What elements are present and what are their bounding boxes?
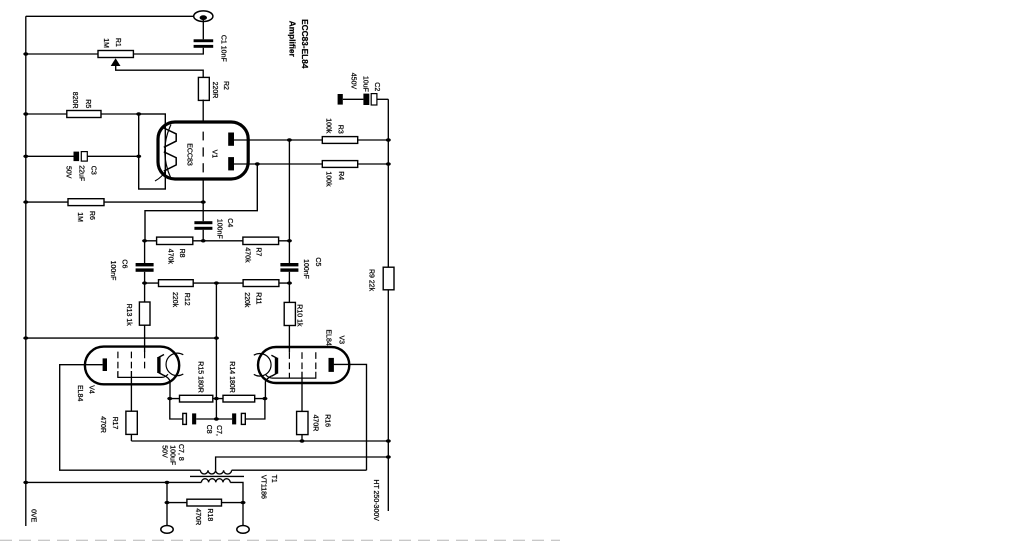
svg-text:100nF: 100nF (109, 261, 116, 281)
V1 anode plate b (228, 157, 234, 170)
V4 g3 to cathode link (118, 371, 168, 377)
V4 grid g2 dashes (130, 352, 132, 371)
wire cathode network row (170, 398, 265, 400)
svg-text:100uF: 100uF (168, 445, 175, 465)
node C4 R7 R8 (201, 239, 206, 242)
svg-text:R3: R3 (337, 125, 344, 134)
svg-text:R14 180R: R14 180R (228, 361, 235, 393)
wire R16 to screens line (301, 435, 303, 441)
svg-text:10uF: 10uF (361, 76, 368, 92)
node R3 branch (287, 138, 292, 141)
V1 divider dash 3 (202, 163, 204, 172)
svg-text:C6: C6 (121, 259, 128, 268)
wire anode b feedback path (145, 164, 257, 241)
wire V4 anode out (60, 365, 201, 471)
svg-text:100nF: 100nF (302, 259, 309, 279)
wire ground to C2 (343, 98, 364, 100)
wire screens line (131, 440, 388, 442)
node cathode R6 (201, 200, 206, 203)
wire V3 anode out (334, 364, 367, 470)
svg-text:450V: 450V (349, 73, 356, 90)
node box top (136, 112, 141, 115)
svg-text:VT1186: VT1186 (259, 475, 266, 499)
svg-text:1M: 1M (76, 212, 83, 222)
capacitor C8 plate minus (241, 413, 245, 424)
wire jack to C1 (202, 20, 204, 40)
capacitor C2 plate minus (371, 94, 377, 105)
wire R6 rail to body (26, 201, 68, 203)
V3 cathode bar (271, 355, 276, 376)
wire secondary left 0V (26, 481, 202, 483)
V4 grid g1 dashes (117, 352, 119, 378)
capacitor C1 plate 2 (194, 45, 214, 48)
svg-text:ECC83-EL84: ECC83-EL84 (300, 19, 310, 69)
node rail R5 (23, 112, 28, 115)
resistor R16 body (297, 411, 308, 434)
wire V1 anode a to R3 (234, 139, 322, 141)
node R18 left (165, 501, 170, 504)
wire C1 to R1 (133, 48, 203, 54)
wire C3 to rail (26, 155, 74, 157)
resistor R6 body (68, 199, 104, 206)
capacitor C3 plate minus (81, 152, 87, 162)
wire V1 anode b to R4 (234, 163, 322, 165)
svg-text:C1 10nF: C1 10nF (220, 35, 227, 62)
wire R4 to HT rail (358, 163, 389, 165)
node rail R1 (23, 52, 28, 55)
svg-text:22uF: 22uF (77, 165, 84, 181)
wire R12 row (145, 282, 217, 284)
node anode b branch (255, 162, 260, 165)
V1 divider dash 1 (202, 132, 204, 141)
svg-text:C7,: C7, (215, 425, 222, 436)
svg-text:C2: C2 (373, 82, 380, 91)
capacitor C7 plate minus (183, 413, 187, 424)
resistor R12 body (159, 280, 194, 287)
output terminal right (237, 526, 249, 534)
tube V3 envelope EL84 (258, 347, 349, 383)
V4 anode plate (103, 358, 107, 371)
node C7 C8 (214, 417, 219, 420)
svg-text:470k: 470k (244, 247, 251, 263)
tube V4 envelope EL84 (85, 347, 179, 385)
wire C6 branch upper (144, 241, 146, 263)
svg-text:R17: R17 (111, 417, 118, 430)
wire HT rail lower (387, 290, 389, 511)
capacitor C5 plate 2 (280, 268, 298, 271)
svg-text:V1: V1 (210, 150, 217, 159)
resistor R15 body (180, 395, 213, 402)
capacitor C2 plate plus (363, 94, 369, 105)
svg-text:R10 1k: R10 1k (296, 304, 303, 327)
wire V3 screen to R16 (301, 372, 303, 411)
node R8 C6 (142, 239, 147, 242)
wire 0V return line (26, 337, 217, 339)
wire C6 branch lower (144, 272, 146, 283)
node HT center tap (386, 455, 391, 458)
svg-text:R5: R5 (84, 99, 91, 108)
node rail C3 (23, 155, 28, 158)
wire to terminal left (166, 503, 168, 526)
svg-text:R2: R2 (222, 81, 229, 90)
capacitor C4 plate 2 (194, 227, 212, 230)
wire R1 to left rail (26, 53, 98, 55)
svg-text:100k: 100k (324, 118, 331, 134)
wire R13 to V4 grid (144, 325, 146, 352)
V3 heater circle (254, 354, 271, 377)
V1 divider dash 2 (202, 147, 204, 156)
wire R6 to V1 cathode line (104, 201, 203, 203)
svg-text:R15 180R: R15 180R (196, 361, 203, 393)
wire V3 cathode down (265, 376, 271, 399)
V4 grid g3 dashes (144, 352, 146, 371)
transformer T1 secondary winding (201, 479, 230, 483)
resistor R17 body (126, 411, 137, 434)
wire C4 to node (202, 230, 204, 241)
capacitor C3 plate plus (74, 152, 80, 162)
wire secondary right (230, 482, 243, 502)
svg-text:C8: C8 (205, 425, 212, 434)
resistor R11 body (243, 280, 279, 287)
resistor R13 body (139, 302, 150, 325)
svg-text:C3: C3 (89, 166, 96, 175)
svg-text:R9 22k: R9 22k (367, 269, 374, 292)
svg-text:100nF: 100nF (216, 219, 223, 239)
svg-text:0VE: 0VE (30, 509, 37, 523)
node V4 cathode R15 (167, 397, 172, 400)
svg-text:C4: C4 (226, 218, 233, 227)
LABELS-SECTION (30, 19, 380, 525)
resistor R8 body (157, 237, 193, 244)
svg-text:220R: 220R (211, 82, 218, 99)
V4 cathode bar (159, 355, 164, 376)
wire R5 to cathode box (101, 113, 139, 115)
wire R2 to V1 grid (202, 100, 204, 123)
svg-text:EL84: EL84 (324, 329, 331, 345)
node R11 C5 (287, 281, 292, 284)
svg-text:R4: R4 (337, 171, 344, 180)
node C6 R12 R13 (142, 281, 147, 284)
DOTS-SECTION (23, 52, 391, 504)
wire R8 row (145, 240, 204, 242)
svg-text:220k: 220k (243, 292, 250, 308)
resistor R4 body (322, 161, 357, 168)
svg-text:C5: C5 (314, 257, 321, 266)
wire HT rail upper (387, 99, 389, 267)
svg-text:Amplifier: Amplifier (288, 21, 298, 58)
svg-text:100k: 100k (325, 171, 332, 187)
capacitor C1 plate 1 (194, 39, 214, 42)
svg-text:820R: 820R (71, 92, 78, 109)
V1 heater arc (165, 125, 171, 179)
svg-text:ECC83: ECC83 (185, 143, 192, 166)
wire R17 to screens line (130, 435, 132, 441)
svg-text:R1: R1 (114, 38, 121, 47)
capacitor C8 plate plus (232, 413, 236, 424)
wire wiper to R2 (116, 65, 204, 78)
svg-text:470R: 470R (194, 508, 201, 525)
wire C3 to cathode box (87, 155, 138, 157)
wire V4 cathode down (164, 375, 170, 398)
node rail 0V return (23, 336, 28, 339)
resistor R10 body (284, 302, 295, 325)
node R12 R11 (214, 281, 219, 284)
node R16 screens (300, 439, 305, 442)
resistor R3 body (322, 137, 357, 144)
wire R7 row (203, 240, 289, 242)
svg-text:R18: R18 (206, 508, 213, 521)
transformer T1 primary winding (200, 470, 231, 474)
svg-text:C7, 8: C7, 8 (177, 444, 184, 461)
V1 anode plate a (228, 133, 234, 146)
tube V1 envelope ECC83 (158, 122, 248, 179)
node HT screens (386, 439, 391, 442)
cathode box V1 (139, 114, 166, 189)
wire to terminal right (242, 503, 244, 526)
V1 heater tail arc (155, 170, 166, 181)
svg-text:470k: 470k (166, 249, 173, 265)
node HT R4 (386, 162, 391, 165)
resistor R5 body (67, 111, 101, 118)
wire R18 row left (167, 502, 187, 504)
transformer T1 core (190, 475, 244, 477)
wire R13 upper (144, 283, 146, 302)
capacitor C5 plate 1 (280, 263, 298, 266)
wire 0V left rail (25, 16, 27, 526)
resistor R2 body (198, 77, 209, 100)
resistor R7 body (243, 237, 279, 244)
wire R5 rail to body (26, 113, 67, 115)
svg-text:1M: 1M (102, 38, 109, 48)
svg-text:R12: R12 (183, 293, 190, 306)
input jack J1 outer (194, 11, 213, 22)
capacitor C7 plate plus (192, 413, 196, 424)
svg-text:V4: V4 (88, 385, 95, 394)
svg-text:470R: 470R (99, 416, 106, 433)
node rail R6 (23, 200, 28, 203)
wire C7 to center node (196, 418, 232, 420)
capacitor C6 plate 1 (136, 263, 154, 266)
wire C5 branch upper (288, 140, 290, 263)
node HT R3 (386, 138, 391, 141)
resistor R9 body (383, 267, 394, 290)
potentiometer R1 wiper arrow (111, 58, 121, 66)
wire R3 to HT rail (358, 139, 389, 141)
output terminal left (161, 526, 173, 534)
node R18 right (241, 501, 246, 504)
svg-text:HT 250-300V: HT 250-300V (372, 479, 379, 521)
capacitor C6 plate 2 (136, 268, 154, 271)
svg-text:R13 1k: R13 1k (125, 304, 132, 327)
V4 heater circle (166, 353, 183, 376)
node R15 R14 (214, 397, 219, 400)
V3 grid g1 dashes (288, 352, 290, 378)
node rail secondary (23, 481, 28, 484)
svg-text:R7: R7 (255, 247, 262, 256)
capacitor C4 plate 1 (194, 221, 212, 224)
wire primary right to V3 (232, 469, 367, 471)
wire R11 row (216, 282, 289, 284)
V3 anode plate (329, 358, 334, 372)
V1 grid-cathode bracket b (164, 152, 176, 171)
node secondary tap (165, 481, 170, 484)
wire C5 branch lower (288, 272, 290, 303)
input jack J1 center pin (200, 15, 207, 20)
wire C8 branch right (245, 399, 265, 419)
wire C7 branch left (170, 399, 183, 419)
V3 g3 to cathode link (266, 372, 316, 378)
svg-text:R16: R16 (323, 414, 330, 427)
wire R18 row right (222, 502, 244, 504)
wire output left drop (166, 482, 168, 502)
node box C3 (136, 155, 141, 158)
node V3 cathode R14 (262, 397, 267, 400)
svg-text:V3: V3 (338, 336, 345, 345)
wire cathode bias riser (215, 283, 217, 419)
node R7 C5 (287, 239, 292, 242)
wire R10 to V3 grid (288, 325, 290, 352)
wire V4 screen to R17 (130, 371, 132, 411)
V3 grid g2 dashes (301, 352, 303, 371)
wire C2 to HT rail (377, 98, 388, 100)
svg-text:50V: 50V (160, 445, 167, 458)
svg-text:EL84: EL84 (76, 385, 83, 401)
svg-text:R8: R8 (178, 249, 185, 258)
svg-text:50V: 50V (64, 166, 71, 179)
potentiometer R1 body (98, 51, 133, 58)
svg-text:T1: T1 (270, 475, 277, 483)
resistor R14 body (223, 395, 255, 402)
V3 grid g3 dashes (315, 352, 317, 371)
svg-text:220k: 220k (171, 292, 178, 308)
ground bar for C2 (338, 94, 343, 105)
node 0V return riser (214, 336, 219, 339)
wire primary center tap (216, 457, 389, 470)
svg-text:R11: R11 (254, 292, 261, 304)
wire input top (26, 15, 194, 17)
resistor R18 body (187, 499, 222, 506)
svg-text:470R: 470R (311, 415, 318, 432)
svg-text:R6: R6 (88, 211, 95, 220)
V1 grid-cathode bracket a (164, 128, 176, 147)
wire V1 cathode line down (202, 179, 204, 222)
